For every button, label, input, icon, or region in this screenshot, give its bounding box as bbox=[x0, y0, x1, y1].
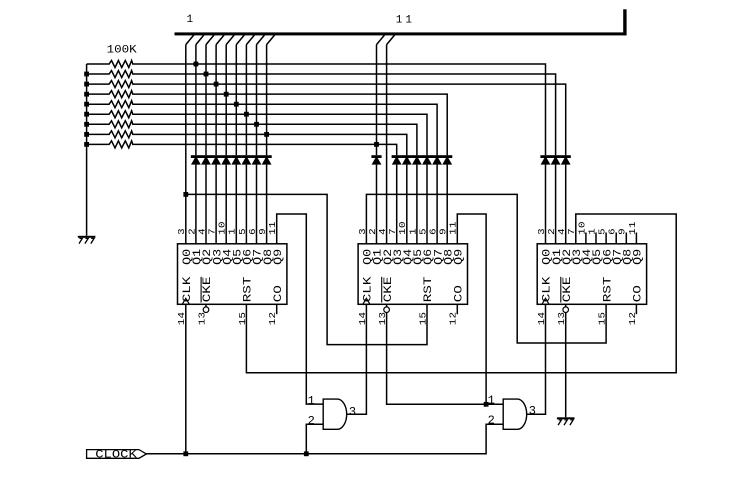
wire diode D15 to U2 Q8 pin bbox=[446, 165, 448, 244]
diode D3 (column U1 Q3) bbox=[211, 155, 221, 164]
U3 unconnected stub pin 10 (Q4) bbox=[585, 233, 587, 244]
diode D2 (column U1 Q2) bbox=[201, 155, 211, 164]
wire diode D10 to U2 Q3 pin bbox=[396, 165, 398, 244]
U3 unconnected stub pin 1 (Q5) bbox=[595, 233, 597, 244]
svg-text:2: 2 bbox=[368, 228, 378, 235]
wire gate U4 output to U2 CLK pin 14 bbox=[347, 304, 367, 414]
junction bus-column 9 to resistor row 8 bbox=[264, 132, 269, 137]
svg-text:10: 10 bbox=[217, 221, 227, 235]
bus entry wire 6 bbox=[236, 35, 244, 45]
U3 CKE label with overbar bbox=[560, 277, 573, 303]
svg-text:6: 6 bbox=[428, 228, 438, 235]
wire U1 Q0 to U2 RST (net RST2) bbox=[186, 194, 427, 344]
wire gate U5 output to U3 CLK pin 14 bbox=[527, 304, 546, 414]
wire bus entry 10 down to diode D9 bbox=[376, 45, 378, 156]
U3 CLK label and clock wedge bbox=[540, 276, 553, 304]
resistor R2 100K and row wire to diode column bbox=[87, 71, 556, 156]
svg-text:RST: RST bbox=[601, 276, 614, 302]
resistor R5 100K and row wire to diode column bbox=[87, 101, 438, 156]
op IC U2 4017 decade counter box bbox=[358, 244, 467, 304]
svg-text:3: 3 bbox=[537, 228, 547, 235]
junction left rail to resistor R3 bbox=[84, 82, 89, 87]
diode D13 (column U2 Q6) bbox=[422, 155, 432, 164]
resistor R1 100K and row wire to diode column bbox=[87, 61, 546, 156]
svg-text:5: 5 bbox=[418, 228, 428, 235]
wire bus entry 4 down through matrix to U1 Q3 pin bbox=[215, 45, 217, 156]
svg-text:CO: CO bbox=[271, 285, 284, 303]
diode D10 (column U2 Q3) bbox=[392, 155, 402, 164]
U3 unconnected stub pin 9 (Q8) bbox=[625, 233, 627, 244]
junction bus-column 8 to resistor row 7 bbox=[254, 122, 259, 127]
resistor R9 100K and row wire to diode column bbox=[87, 141, 397, 155]
wire diode D2 cathode-column to U1 Q2 pin bbox=[205, 165, 207, 244]
bus entry wire 8 bbox=[257, 35, 265, 45]
diode D6 (column U1 Q6) bbox=[241, 155, 251, 164]
svg-text:1: 1 bbox=[187, 14, 194, 26]
op IC U3 4017 decade counter box bbox=[537, 244, 646, 304]
AND gate U4 body bbox=[323, 399, 346, 429]
svg-text:CKE: CKE bbox=[560, 277, 573, 303]
svg-text:RST: RST bbox=[241, 276, 254, 302]
svg-text:3: 3 bbox=[529, 404, 536, 418]
wire gate U5 input 1 to gate bbox=[486, 403, 503, 405]
ground (U3 CKE) bbox=[557, 417, 575, 425]
svg-text:CKE: CKE bbox=[201, 277, 214, 303]
wire bus entry 11 down to U2 Q2 pin bbox=[386, 45, 388, 244]
wire bus entry 7 down through matrix to U1 Q6 pin bbox=[245, 45, 247, 156]
svg-text:2: 2 bbox=[488, 414, 495, 428]
wire U1 Q9 pin 11 to gate U4 input 1 bbox=[277, 214, 324, 404]
bus entry wire 4 bbox=[216, 35, 224, 45]
U3 unconnected stub pin 5 (Q6) bbox=[605, 233, 607, 244]
svg-text:2: 2 bbox=[547, 228, 557, 235]
svg-text:2: 2 bbox=[308, 414, 315, 428]
svg-text:4: 4 bbox=[197, 228, 207, 235]
wire bus entry 5 down through matrix to U1 Q4 pin bbox=[225, 45, 227, 156]
wire U2 Q0 to U3 RST (net RST3) bbox=[366, 194, 606, 343]
wire diode D18 to U3 Q2 pin bbox=[565, 165, 567, 244]
svg-text:CLK: CLK bbox=[540, 276, 553, 302]
bus entry wire 9 bbox=[267, 35, 275, 45]
svg-text:9: 9 bbox=[438, 228, 448, 235]
wire diode D6 cathode-column to U1 Q6 pin bbox=[245, 165, 247, 244]
junction bus-column 2 to resistor row 1 bbox=[194, 62, 199, 67]
wire clock line bbox=[146, 424, 503, 454]
wire diode D14 to U2 Q7 pin bbox=[436, 165, 438, 244]
wire bus entry 8 down through matrix to U1 Q7 pin bbox=[256, 45, 258, 156]
wire diode D11 to U2 Q4 pin bbox=[406, 165, 408, 244]
ground (resistor common rail) bbox=[78, 236, 96, 244]
svg-text:3: 3 bbox=[177, 228, 187, 235]
wire diode D8 cathode-column to U1 Q8 pin bbox=[266, 165, 268, 244]
wire diode D1 cathode-column to U1 Q1 pin bbox=[195, 165, 197, 244]
diode D12 (column U2 Q5) bbox=[412, 155, 422, 164]
svg-text:Q9: Q9 bbox=[453, 249, 466, 265]
diode D18 (column U3 Q2) bbox=[561, 155, 571, 164]
U2 CO pin 12 stub bbox=[456, 304, 458, 314]
diode D15 (column U2 Q8) bbox=[442, 155, 452, 164]
op IC U1 4017 decade counter box bbox=[178, 244, 287, 304]
junction bus-column 5 to resistor row 4 bbox=[224, 92, 229, 97]
svg-text:CLOCK: CLOCK bbox=[95, 449, 137, 461]
resistor R7 100K and row wire to diode column bbox=[87, 121, 417, 155]
U3 CO pin 12 stub bbox=[635, 304, 637, 314]
svg-text:100K: 100K bbox=[107, 43, 138, 56]
wire diode D7 cathode-column to U1 Q7 pin bbox=[256, 165, 258, 244]
wire U1 RST from U3 Q3 (net RST1) bbox=[246, 214, 676, 373]
wire diode D16 to U3 Q0 pin bbox=[545, 165, 547, 244]
U2 CLK label and clock wedge bbox=[361, 276, 374, 304]
U1 CLK label and clock wedge bbox=[181, 276, 194, 304]
U3 unconnected stub pin 6 (Q7) bbox=[615, 233, 617, 244]
svg-text:7: 7 bbox=[207, 228, 217, 235]
resistor R8 100K and row wire to diode column bbox=[87, 131, 407, 155]
svg-text:CLK: CLK bbox=[361, 276, 374, 302]
svg-text:CKE: CKE bbox=[381, 277, 394, 303]
junction bus-column 6 to resistor row 5 bbox=[234, 102, 239, 107]
junction left rail to resistor R4 bbox=[84, 92, 89, 97]
wire gate U4 input 2 drop to clock line bbox=[306, 424, 323, 454]
bus entry wire 2 bbox=[196, 35, 204, 45]
wire diode D4 cathode-column to U1 Q4 pin bbox=[225, 165, 227, 244]
resistor R4 100K and row wire to diode column bbox=[87, 91, 448, 156]
junction gate U5 input 1 node bbox=[484, 402, 489, 407]
wire U1 CLK pin 14 to clock line bbox=[185, 304, 187, 454]
wire diode D13 to U2 Q6 pin bbox=[426, 165, 428, 244]
svg-text:Q9: Q9 bbox=[272, 249, 285, 265]
junction U1 Q0 column to U2 reset feed bbox=[183, 192, 188, 197]
svg-text:CLK: CLK bbox=[181, 276, 194, 302]
U2 CKE inversion bubble pin 13 bbox=[384, 304, 390, 312]
wire U2 CKE pin 13 to gate U5 input 1 bbox=[387, 313, 487, 405]
junction left rail to resistor R8 bbox=[84, 132, 89, 137]
svg-text:1: 1 bbox=[488, 393, 495, 407]
svg-text:2: 2 bbox=[187, 228, 197, 235]
svg-text:1: 1 bbox=[227, 228, 237, 235]
bus entry wire 7 bbox=[246, 35, 254, 45]
svg-text:RST: RST bbox=[422, 276, 435, 302]
U3 unconnected stub pin 11 (Q9) bbox=[635, 233, 637, 244]
svg-text:Q9: Q9 bbox=[632, 249, 645, 265]
resistor R6 100K and row wire to diode column bbox=[87, 111, 427, 155]
U3 CKE inversion bubble pin 13 bbox=[563, 304, 569, 312]
junction left rail to resistor R5 bbox=[84, 102, 89, 107]
diode D16 (column U3 Q0) bbox=[540, 155, 550, 164]
svg-text:6: 6 bbox=[248, 228, 258, 235]
svg-text:1: 1 bbox=[308, 394, 315, 408]
diode D1 (column U1 Q1) bbox=[191, 155, 201, 164]
svg-text:9: 9 bbox=[258, 228, 268, 235]
diode D5 (column U1 Q5) bbox=[231, 155, 241, 164]
svg-text:10: 10 bbox=[398, 221, 408, 235]
AND gate U5 body bbox=[503, 399, 526, 429]
junction bus-column 4 to resistor row 3 bbox=[214, 82, 219, 87]
svg-text:7: 7 bbox=[388, 228, 398, 235]
diode D9 (column U2 Q1) bbox=[371, 155, 381, 164]
bus entry wire 1 bbox=[186, 35, 194, 45]
wire U2 Q9 pin 11 down to gate U5 input 1 bbox=[457, 214, 486, 404]
resistor R3 100K and row wire to diode column bbox=[87, 81, 566, 156]
svg-text:4: 4 bbox=[557, 228, 567, 235]
svg-text:1: 1 bbox=[405, 14, 412, 26]
bus entry wire 11 bbox=[387, 35, 395, 45]
wire diode D3 cathode-column to U1 Q3 pin bbox=[215, 165, 217, 244]
diode D8 (column U1 Q8) bbox=[262, 155, 272, 164]
wire bus entry 9 down through matrix to U1 Q8 pin bbox=[266, 45, 268, 156]
svg-text:13: 13 bbox=[197, 312, 207, 326]
svg-text:3: 3 bbox=[349, 405, 356, 419]
diode D4 (column U1 Q4) bbox=[221, 155, 231, 164]
wire U3 CKE pin 13 to ground bbox=[565, 313, 567, 418]
junction left rail to resistor R7 bbox=[84, 122, 89, 127]
bus entry wire 5 bbox=[226, 35, 234, 45]
junction row 9 to diode D9 column bbox=[374, 142, 379, 147]
U1 CO pin 12 stub bbox=[276, 304, 278, 314]
wire diode D9 to U2 Q1 pin bbox=[376, 165, 378, 244]
bus (thick power/select bus at top) bbox=[175, 9, 627, 35]
junction clock line to U1 CLK bbox=[183, 451, 188, 456]
svg-text:5: 5 bbox=[238, 228, 248, 235]
junction left rail to resistor R6 bbox=[84, 112, 89, 117]
wire bus to U1 CLK-column Q0 (pin 3) bbox=[185, 45, 187, 244]
wire bus entry 2 down through matrix to U1 Q1 pin bbox=[195, 45, 197, 156]
junction bus-column 7 to resistor row 6 bbox=[244, 112, 249, 117]
wire left common rail to ground bbox=[86, 64, 88, 236]
U1 CKE inversion bubble pin 13 bbox=[203, 304, 209, 312]
diode D7 (column U1 Q7) bbox=[251, 155, 261, 164]
svg-text:1: 1 bbox=[396, 14, 403, 26]
wire diode D12 to U2 Q5 pin bbox=[416, 165, 418, 244]
svg-text:1: 1 bbox=[408, 228, 418, 235]
diode D14 (column U2 Q7) bbox=[432, 155, 442, 164]
junction bus-column 3 to resistor row 2 bbox=[204, 72, 209, 77]
junction left rail to resistor R9 bbox=[84, 142, 89, 147]
U1 CKE label with overbar bbox=[201, 277, 214, 303]
diode D11 (column U2 Q4) bbox=[402, 155, 412, 164]
bus entry wire 10 bbox=[377, 35, 385, 45]
wire diode D17 to U3 Q1 pin bbox=[555, 165, 557, 244]
bus entry wire 3 bbox=[206, 35, 214, 45]
svg-text:4: 4 bbox=[378, 228, 388, 235]
diode D17 (column U3 Q1) bbox=[551, 155, 561, 164]
wire bus entry 6 down through matrix to U1 Q5 pin bbox=[235, 45, 237, 156]
junction left rail to resistor R2 bbox=[84, 72, 89, 77]
wire bus entry 3 down through matrix to U1 Q2 pin bbox=[205, 45, 207, 156]
U2 CKE label with overbar bbox=[381, 277, 394, 303]
svg-text:CO: CO bbox=[631, 285, 644, 303]
junction clock line to gate U4 input 2 bbox=[304, 451, 309, 456]
svg-text:CO: CO bbox=[452, 285, 465, 303]
wire diode D5 cathode-column to U1 Q5 pin bbox=[235, 165, 237, 244]
clock signal flag CLOCK bbox=[87, 449, 147, 461]
